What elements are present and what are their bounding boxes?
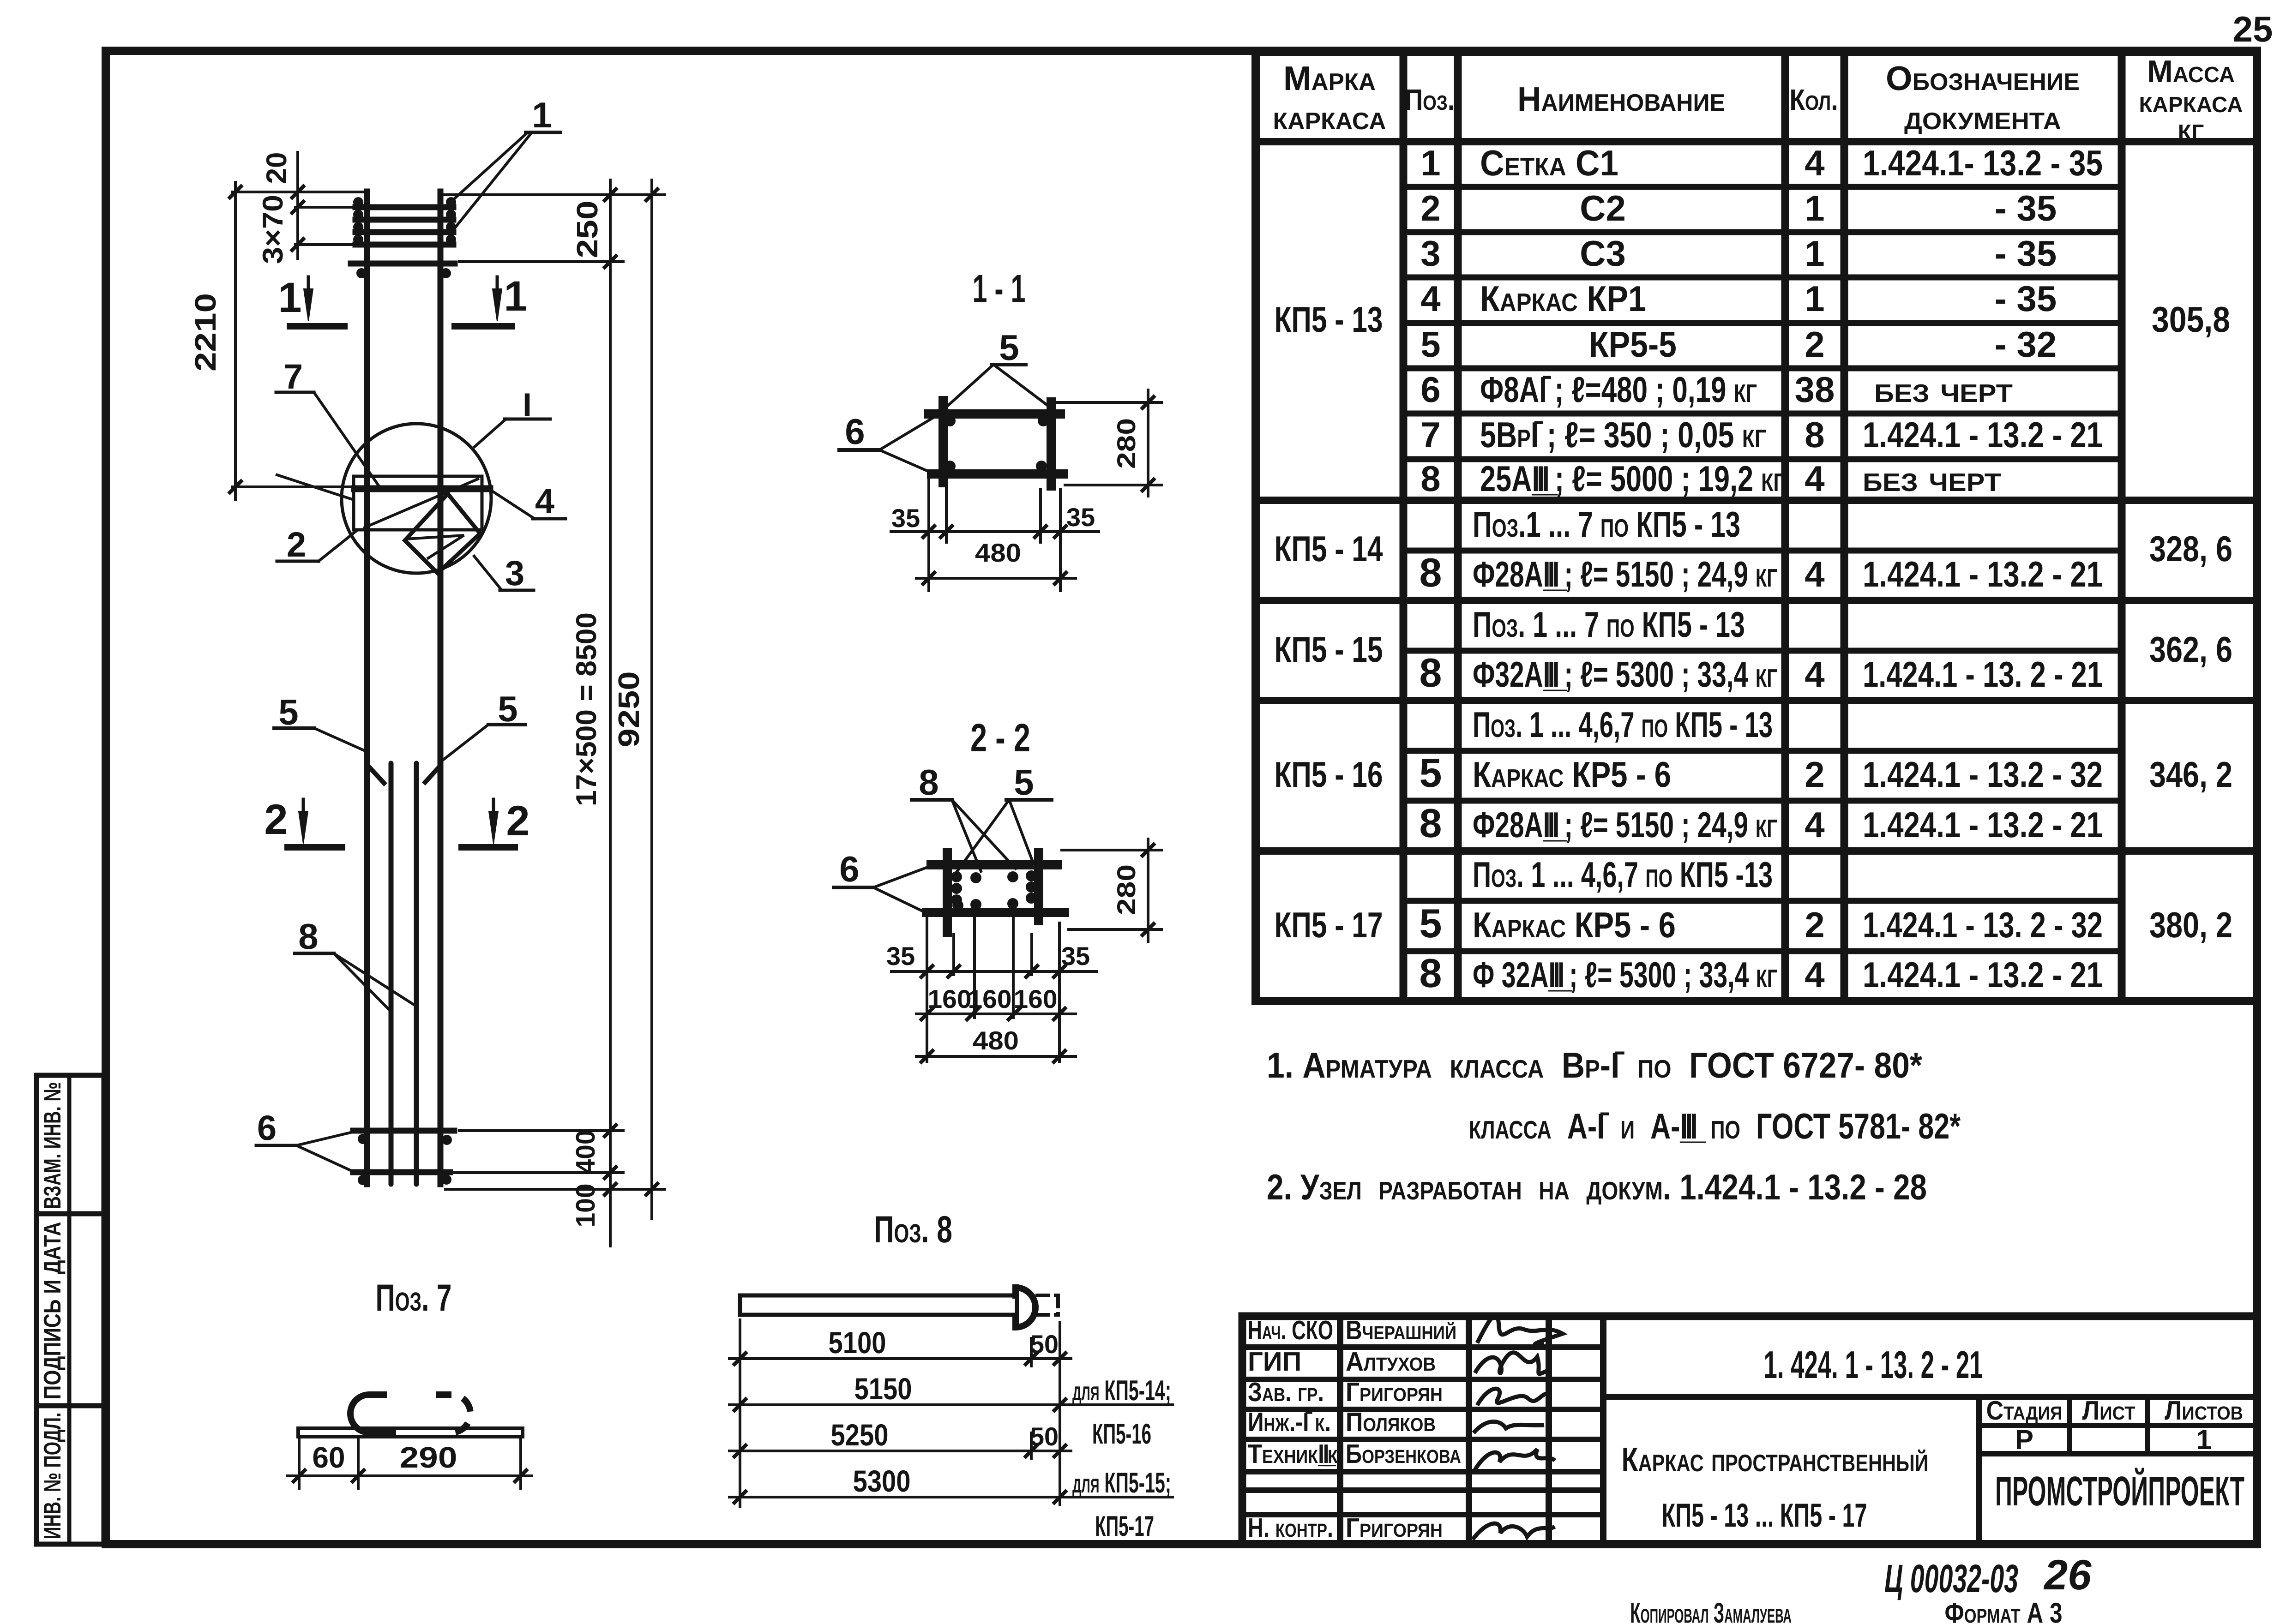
svg-text:2: 2 xyxy=(1420,188,1440,228)
svg-text:1: 1 xyxy=(532,95,552,135)
svg-text:- 35: - 35 xyxy=(1995,278,2057,319)
mesh C1 line 3 xyxy=(355,229,453,235)
main bar right (elevation) xyxy=(438,192,444,1184)
svg-text:Ф 32АІ̲І̲І̲ ; ℓ= 5300 ; 33,4 к: Ф 32АІ̲І̲І̲ ; ℓ= 5300 ; 33,4 кг xyxy=(1473,954,1777,995)
title block doc-number divider xyxy=(1603,1394,2257,1400)
bottom mesh line 2 xyxy=(353,1169,450,1175)
svg-text:26: 26 xyxy=(2043,1552,2092,1599)
2-2 cage bar right xyxy=(1034,853,1043,921)
title block stamp row lines xyxy=(1242,1344,1603,1350)
stamp box line 2 xyxy=(36,1403,104,1408)
title block stamp column lines xyxy=(1337,1316,1343,1544)
svg-text:Р: Р xyxy=(2015,1424,2033,1455)
mesh C1 line 1 xyxy=(355,204,453,210)
svg-text:1.424.1 - 13. 2 - 21: 1.424.1 - 13. 2 - 21 xyxy=(1863,654,2103,695)
svg-text:250: 250 xyxy=(571,201,604,258)
svg-text:60: 60 xyxy=(312,1441,345,1474)
svg-text:Инж.-І̄ к.: Инж.-І̄ к. xyxy=(1248,1407,1331,1437)
wire diagonal in detail xyxy=(365,479,478,527)
extension line mesh5 right xyxy=(459,260,623,263)
extension line bottom mesh2 xyxy=(455,1171,623,1174)
svg-text:Григорян: Григорян xyxy=(1346,1513,1443,1543)
svg-text:8: 8 xyxy=(1420,950,1442,996)
svg-text:Н. контр.: Н. контр. xyxy=(1248,1513,1333,1543)
svg-text:1: 1 xyxy=(1805,278,1824,319)
svg-text:4: 4 xyxy=(1805,654,1824,695)
leader line from 2 xyxy=(277,475,354,500)
svg-text:4: 4 xyxy=(1805,554,1824,594)
svg-text:Поляков: Поляков xyxy=(1346,1407,1436,1437)
svg-text:Нач. СКО: Нач. СКО xyxy=(1248,1315,1333,1345)
svg-text:Поз. 1 ... 4,6,7 по КП5 - 13: Поз. 1 ... 4,6,7 по КП5 - 13 xyxy=(1473,704,1773,745)
svg-text:1: 1 xyxy=(1805,188,1824,228)
svg-text:8: 8 xyxy=(1420,800,1442,846)
svg-text:без черт: без черт xyxy=(1863,458,2001,499)
svg-text:5300: 5300 xyxy=(853,1464,911,1498)
svg-text:6: 6 xyxy=(845,411,865,452)
svg-text:1.424.1 - 13. 2 - 32: 1.424.1 - 13. 2 - 32 xyxy=(1863,905,2103,945)
2-2 dimension 35 35 row xyxy=(891,970,1097,973)
poz 7 dimension 60 290 xyxy=(287,1474,532,1477)
2-2 stirrup bottom bar xyxy=(926,908,1065,917)
extension line bars bottom xyxy=(445,1188,665,1191)
poz 8 dim 5300 xyxy=(729,1496,1173,1498)
title block outer border xyxy=(1242,1316,2257,1544)
svg-text:7: 7 xyxy=(283,357,303,396)
svg-text:Каркас пространственный: Каркас пространственный xyxy=(1622,1440,1929,1479)
svg-text:КП5-17: КП5-17 xyxy=(1095,1510,1154,1542)
poz 8 extension lines xyxy=(739,1320,741,1507)
svg-text:1: 1 xyxy=(278,274,301,321)
svg-text:кг: кг xyxy=(2178,112,2204,147)
svg-text:документа: документа xyxy=(1904,98,2061,137)
2-2 dimension 160x3 row xyxy=(916,1013,1076,1015)
svg-text:ПРОМСТРОЙПРОЕКТ: ПРОМСТРОЙПРОЕКТ xyxy=(1995,1468,2244,1515)
svg-text:2: 2 xyxy=(264,796,288,843)
svg-text:35: 35 xyxy=(1066,503,1095,532)
svg-text:Поз. 1 ... 7 по КП5 - 13: Поз. 1 ... 7 по КП5 - 13 xyxy=(1473,604,1745,645)
svg-text:1: 1 xyxy=(504,273,527,320)
svg-text:1.424.1- 13.2 - 35: 1.424.1- 13.2 - 35 xyxy=(1863,143,2103,183)
svg-text:4: 4 xyxy=(1420,278,1440,319)
svg-text:328, 6: 328, 6 xyxy=(2149,528,2232,569)
mesh C2 thick top bar xyxy=(355,485,490,492)
svg-text:2210: 2210 xyxy=(189,293,222,372)
mesh C3 fold line xyxy=(406,535,464,559)
section marker 2 left xyxy=(302,799,305,815)
svg-text:2 - 2: 2 - 2 xyxy=(970,716,1030,760)
svg-text:Сетка С1: Сетка С1 xyxy=(1480,143,1618,183)
svg-text:5: 5 xyxy=(1014,762,1034,803)
1-1 cage bar right xyxy=(1047,402,1056,486)
section marker 2 right xyxy=(492,799,495,815)
poz 8 hook head xyxy=(1016,1288,1035,1327)
svg-text:С3: С3 xyxy=(1580,233,1626,274)
svg-text:класса А-І̄ и А-І̲І̲І̲ по: класса А-І̄ и А-І̲І̲І̲ по ГОСТ 5781- 82* xyxy=(1469,1106,1961,1146)
svg-text:Зав. гр.: Зав. гр. xyxy=(1248,1377,1324,1407)
svg-text:362, 6: 362, 6 xyxy=(2149,629,2232,670)
svg-text:Ф28АІ̲І̲І̲ ; ℓ= 5150 ; 24,9 кг: Ф28АІ̲І̲І̲ ; ℓ= 5150 ; 24,9 кг xyxy=(1473,804,1777,845)
bar poz8 left (elevation) xyxy=(389,763,394,1184)
svg-text:290: 290 xyxy=(400,1441,457,1474)
poz 8 dim 5250 xyxy=(729,1450,1071,1452)
svg-text:С2: С2 xyxy=(1580,188,1626,228)
svg-text:Ф32АІ̲І̲І̲ ; ℓ= 5300 ; 33,4 кг: Ф32АІ̲І̲І̲ ; ℓ= 5300 ; 33,4 кг xyxy=(1473,654,1777,695)
spec table group lines xyxy=(1256,497,2257,504)
svg-text:1.424.1 - 13.2 - 32: 1.424.1 - 13.2 - 32 xyxy=(1863,754,2103,795)
svg-text:160: 160 xyxy=(928,984,972,1013)
1-1 extension lines bottom xyxy=(927,480,930,591)
svg-text:Ф8АІ̄ ; ℓ=480 ; 0,19 кг: Ф8АІ̄ ; ℓ=480 ; 0,19 кг xyxy=(1480,369,1757,410)
svg-text:20: 20 xyxy=(261,152,293,184)
svg-text:Ц 00032-03: Ц 00032-03 xyxy=(1884,1557,2018,1601)
mesh C1 line 4 xyxy=(355,242,453,248)
section marker 1 left xyxy=(307,277,310,293)
2-2 cage bar left xyxy=(943,853,952,932)
svg-text:Поз. 7: Поз. 7 xyxy=(376,1277,452,1319)
svg-text:38: 38 xyxy=(1795,369,1835,410)
mesh line 5 xyxy=(351,261,455,267)
2-2 stirrup top bar xyxy=(931,860,1057,869)
poz 7 wire bar xyxy=(298,1428,523,1437)
right dimension line 17x500 xyxy=(609,180,612,1246)
svg-text:ГИП: ГИП xyxy=(1248,1347,1301,1377)
mesh C1 line 2 xyxy=(355,217,453,223)
section marker 1 right xyxy=(496,277,499,293)
svg-text:Борзенкова: Борзенкова xyxy=(1346,1439,1461,1469)
svg-text:Марка: Марка xyxy=(1283,59,1376,97)
svg-text:КП5 - 13 ... КП5 - 17: КП5 - 13 ... КП5 - 17 xyxy=(1662,1497,1867,1534)
svg-text:Вчерашний: Вчерашний xyxy=(1346,1315,1456,1345)
svg-text:2: 2 xyxy=(506,797,529,845)
svg-text:1. 424. 1 - 13. 2 - 21: 1. 424. 1 - 13. 2 - 21 xyxy=(1764,1343,1983,1386)
svg-text:для КП5-14;: для КП5-14; xyxy=(1072,1375,1171,1407)
svg-text:КР5-5: КР5-5 xyxy=(1589,324,1677,365)
svg-text:для КП5-15;: для КП5-15; xyxy=(1072,1467,1171,1499)
detail circle I xyxy=(342,424,491,573)
svg-text:Каркас КР5 - 6: Каркас КР5 - 6 xyxy=(1473,905,1676,945)
signature НАЧ. СКО xyxy=(1477,1315,1563,1344)
poz 8 dim 5100 xyxy=(729,1357,1071,1360)
svg-text:КП5 - 14: КП5 - 14 xyxy=(1275,528,1383,569)
svg-text:5ВрІ̄ ; ℓ= 350 ; 0,05 кг: 5ВрІ̄ ; ℓ= 350 ; 0,05 кг xyxy=(1480,414,1766,455)
mesh C3 diamond xyxy=(405,494,480,573)
poz 8 dim 5150 xyxy=(729,1403,1173,1406)
bottom mesh line 1 xyxy=(353,1128,454,1134)
svg-text:5100: 5100 xyxy=(829,1325,886,1360)
svg-text:35: 35 xyxy=(886,941,915,971)
svg-text:5: 5 xyxy=(999,327,1019,368)
mesh C2 rectangle xyxy=(354,476,482,530)
svg-text:Каркас КР5 - 6: Каркас КР5 - 6 xyxy=(1473,754,1671,795)
svg-text:8: 8 xyxy=(298,916,318,957)
signature ИНЖ xyxy=(1474,1421,1544,1433)
svg-text:5150: 5150 xyxy=(854,1372,912,1406)
svg-text:4: 4 xyxy=(1805,804,1824,845)
1-1 dimension 35 35 xyxy=(891,530,1099,533)
svg-text:3: 3 xyxy=(505,554,524,593)
1-1 stirrup bottom bar xyxy=(932,469,1063,479)
poz 8 bar xyxy=(740,1295,1017,1315)
svg-text:6: 6 xyxy=(839,849,859,889)
2-2 corner hook right xyxy=(1039,908,1065,917)
svg-text:9250: 9250 xyxy=(612,671,645,748)
svg-text:Поз.: Поз. xyxy=(1405,83,1455,116)
svg-text:КП5-16: КП5-16 xyxy=(1092,1418,1151,1450)
svg-text:25АІ̲І̲І̲ ; ℓ= 5000 ; 19,2 кг: 25АІ̲І̲І̲ ; ℓ= 5000 ; 19,2 кг xyxy=(1480,458,1785,499)
dimension 3x70 xyxy=(295,243,352,246)
svg-text:380, 2: 380, 2 xyxy=(2149,905,2232,945)
svg-text:КП5 - 15: КП5 - 15 xyxy=(1275,629,1383,670)
svg-text:каркаса: каркаса xyxy=(1273,98,1386,137)
svg-text:ВЗАМ. ИНВ. №: ВЗАМ. ИНВ. № xyxy=(39,1082,66,1209)
signature ЗАВ. ГР. xyxy=(1477,1389,1551,1405)
svg-text:Григорян: Григорян xyxy=(1346,1377,1443,1407)
svg-text:8: 8 xyxy=(1805,414,1824,455)
svg-text:КП5 - 17: КП5 - 17 xyxy=(1275,905,1383,945)
svg-text:6: 6 xyxy=(1420,369,1440,410)
svg-text:160: 160 xyxy=(1014,984,1058,1013)
svg-text:25: 25 xyxy=(2233,9,2273,49)
svg-text:3: 3 xyxy=(1420,233,1440,274)
svg-text:2: 2 xyxy=(1805,324,1824,365)
svg-text:ПОДПИСЬ И ДАТА: ПОДПИСЬ И ДАТА xyxy=(39,1222,66,1400)
svg-text:2: 2 xyxy=(1805,905,1824,945)
svg-text:ИНВ. № ПОДЛ.: ИНВ. № ПОДЛ. xyxy=(39,1413,66,1540)
svg-text:305,8: 305,8 xyxy=(2152,299,2230,340)
svg-text:2. Узел разработан на докум: 2. Узел разработан на докум. 1.424.1 - 1… xyxy=(1267,1167,1927,1207)
svg-text:1: 1 xyxy=(1420,143,1440,183)
svg-text:1.424.1 - 13.2 - 21: 1.424.1 - 13.2 - 21 xyxy=(1863,414,2103,455)
svg-text:4: 4 xyxy=(1805,143,1824,183)
svg-text:Каркас КР1: Каркас КР1 xyxy=(1480,278,1646,319)
poz 7 hook dashed xyxy=(436,1395,470,1432)
2-2 dimension 280 xyxy=(1147,839,1149,941)
svg-text:1.424.1 - 13.2 - 21: 1.424.1 - 13.2 - 21 xyxy=(1863,554,2103,594)
1-1 corner wires xyxy=(944,415,956,426)
poz 7 extension lines xyxy=(298,1440,301,1488)
svg-text:Алтухов: Алтухов xyxy=(1346,1347,1436,1377)
svg-text:8: 8 xyxy=(1420,458,1440,499)
svg-text:Листов: Листов xyxy=(2165,1396,2243,1426)
svg-text:160: 160 xyxy=(968,984,1012,1013)
svg-text:5: 5 xyxy=(278,692,298,732)
svg-text:400: 400 xyxy=(571,1130,601,1174)
svg-text:Поз.1 ... 7 по КП5 - 13: Поз.1 ... 7 по КП5 - 13 xyxy=(1473,504,1740,545)
svg-text:- 35: - 35 xyxy=(1995,188,2057,228)
svg-text:Лист: Лист xyxy=(2082,1396,2136,1426)
svg-text:1: 1 xyxy=(2196,1424,2211,1455)
stamp column outer box xyxy=(36,1075,104,1544)
svg-text:8: 8 xyxy=(919,762,938,803)
svg-text:Стадия: Стадия xyxy=(1986,1396,2063,1426)
svg-text:5: 5 xyxy=(1420,324,1440,365)
svg-text:Формат А 3: Формат А 3 xyxy=(1945,1597,2063,1624)
svg-text:1: 1 xyxy=(1805,233,1824,274)
spec table inner row lines xyxy=(1403,184,2122,190)
svg-text:1. Арматура класса Вр-І̄ по: 1. Арматура класса Вр-І̄ по ГОСТ 6727- 8… xyxy=(1267,1045,1923,1085)
svg-text:480: 480 xyxy=(975,538,1021,567)
dimension 20 xyxy=(296,152,299,258)
signature Н.КОНТР xyxy=(1473,1523,1555,1540)
svg-text:КП5 - 13: КП5 - 13 xyxy=(1275,299,1383,340)
svg-text:2: 2 xyxy=(287,525,306,564)
svg-text:5: 5 xyxy=(1420,750,1442,796)
stamp column divider line xyxy=(67,1075,72,1544)
svg-text:Поз. 1 ... 4,6,7 по КП5 -13: Поз. 1 ... 4,6,7 по КП5 -13 xyxy=(1473,854,1773,895)
svg-text:без черт: без черт xyxy=(1874,369,2013,410)
svg-text:1.424.1 - 13.2 - 21: 1.424.1 - 13.2 - 21 xyxy=(1863,804,2103,845)
svg-text:5: 5 xyxy=(1420,900,1442,946)
svg-text:Поз. 8: Поз. 8 xyxy=(874,1209,952,1251)
svg-text:6: 6 xyxy=(257,1109,277,1148)
2-2 wires dots xyxy=(951,871,962,882)
svg-text:Наименование: Наименование xyxy=(1517,80,1725,118)
poz 8 hook dashed xyxy=(1037,1294,1058,1297)
svg-text:346, 2: 346, 2 xyxy=(2149,754,2232,795)
svg-text:4: 4 xyxy=(1805,458,1824,499)
2-2 extension lines bottom xyxy=(926,918,928,1061)
svg-text:- 35: - 35 xyxy=(1995,233,2057,274)
2-2 dimension 480 xyxy=(916,1055,1076,1058)
svg-text:Кол.: Кол. xyxy=(1790,83,1838,116)
svg-text:50: 50 xyxy=(1030,1422,1059,1451)
extension line bar top right xyxy=(444,193,665,196)
svg-text:35: 35 xyxy=(891,503,920,533)
svg-text:1.424.1 - 13.2 - 21: 1.424.1 - 13.2 - 21 xyxy=(1863,954,2103,995)
dimension 2210 xyxy=(234,182,237,499)
svg-text:280: 280 xyxy=(1112,418,1141,469)
svg-text:5250: 5250 xyxy=(831,1418,889,1452)
spec table header row line xyxy=(1256,138,2257,145)
1-1 stirrup top bar xyxy=(928,409,1060,419)
svg-text:50: 50 xyxy=(1030,1330,1059,1359)
svg-text:35: 35 xyxy=(1061,941,1090,971)
signature ГИП xyxy=(1475,1353,1547,1374)
svg-text:7: 7 xyxy=(1420,414,1440,455)
svg-text:ТехникІ̲І̲к: ТехникІ̲І̲к xyxy=(1248,1439,1338,1469)
svg-text:КП5 - 16: КП5 - 16 xyxy=(1275,754,1383,795)
1-1 cage bar left xyxy=(938,401,948,483)
svg-text:8: 8 xyxy=(1420,650,1442,695)
svg-text:17×500 = 8500: 17×500 = 8500 xyxy=(571,612,602,806)
svg-text:1 - 1: 1 - 1 xyxy=(973,267,1026,311)
svg-text:4: 4 xyxy=(535,482,554,521)
svg-text:480: 480 xyxy=(973,1026,1019,1055)
svg-text:2: 2 xyxy=(1805,754,1824,795)
right dimension line 9250 xyxy=(650,180,653,1218)
svg-text:3×70: 3×70 xyxy=(257,195,289,264)
1-1 dimension 480 xyxy=(916,577,1076,580)
main bar left (elevation) xyxy=(364,192,370,1184)
stamp box line 1 xyxy=(36,1211,104,1217)
poz 7 hook solid xyxy=(350,1395,396,1432)
svg-text:Копировал Замалуева: Копировал Замалуева xyxy=(1630,1597,1792,1624)
spec table outer border xyxy=(1256,52,2257,1001)
svg-text:4: 4 xyxy=(1805,954,1824,995)
title block stadia box lines xyxy=(1976,1397,1982,1544)
spec table column lines xyxy=(1400,52,1408,1001)
bar poz8 right (elevation) xyxy=(414,763,419,1184)
1-1 dimension 280 xyxy=(1147,390,1149,496)
svg-text:100: 100 xyxy=(571,1184,601,1228)
svg-text:280: 280 xyxy=(1112,864,1141,915)
svg-text:Обозначение: Обозначение xyxy=(1886,59,2080,97)
svg-text:8: 8 xyxy=(1420,550,1442,595)
svg-text:Ф28АІ̲І̲І̲ ; ℓ= 5150 ; 24,9 кг: Ф28АІ̲І̲І̲ ; ℓ= 5150 ; 24,9 кг xyxy=(1473,554,1777,594)
svg-text:- 32: - 32 xyxy=(1995,324,2057,365)
extension line bottom mesh1 xyxy=(459,1129,623,1132)
signature ТЕХНИК xyxy=(1475,1449,1555,1470)
